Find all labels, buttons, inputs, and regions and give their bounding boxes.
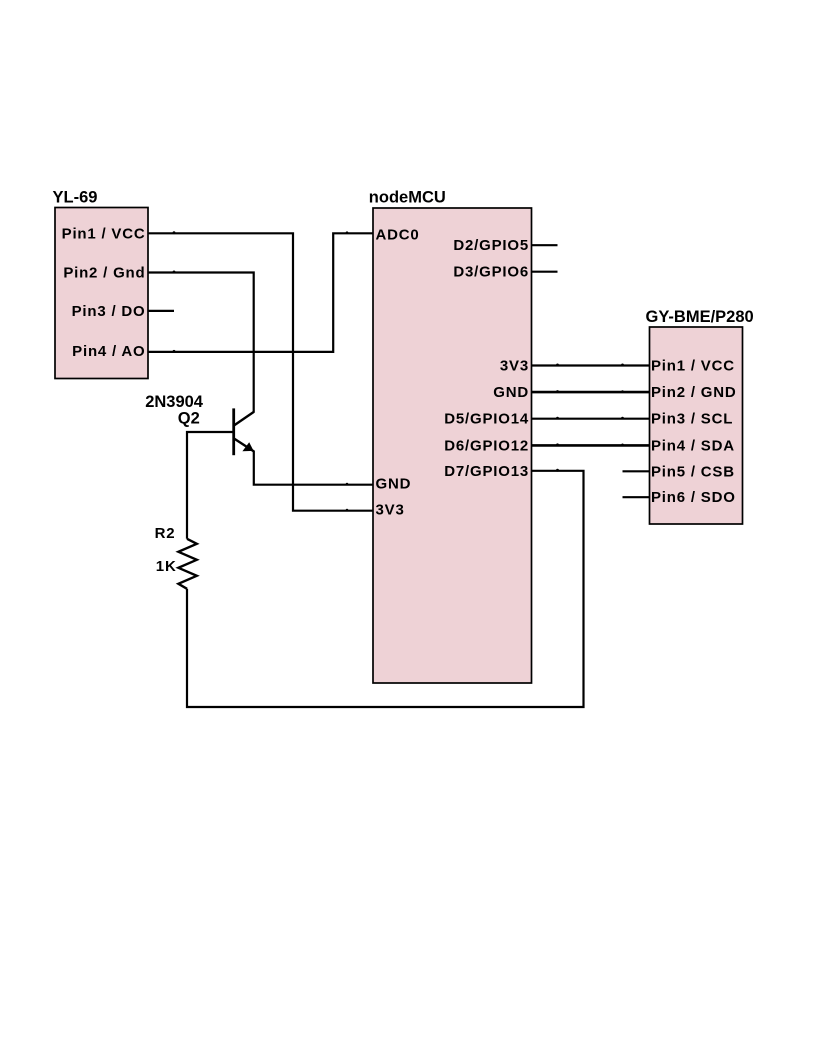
svg-text:Pin4 / SDA: Pin4 / SDA	[651, 437, 735, 454]
wire Pin2/Gnd to Q2 collector	[148, 273, 254, 413]
YL-69 sensor block	[55, 208, 148, 379]
wire stub Pin5/CSB	[623, 470, 650, 472]
wire Pin1/VCC to nodeMCU 3V3	[148, 233, 373, 510]
wire endpoint nubs	[173, 231, 624, 511]
svg-text:GND: GND	[376, 476, 412, 493]
svg-text:Q2: Q2	[178, 409, 200, 427]
wire R2 bottom to nodeMCU D7/GPIO13	[187, 471, 584, 707]
svg-text:2N3904: 2N3904	[145, 393, 204, 411]
svg-text:D7/GPIO13: D7/GPIO13	[444, 463, 529, 480]
svg-text:D6/GPIO12: D6/GPIO12	[444, 437, 529, 454]
svg-text:YL-69: YL-69	[53, 189, 98, 207]
svg-text:R2: R2	[155, 525, 176, 542]
wire stub D2/GPIO5	[532, 244, 558, 246]
svg-text:Pin6 / SDO: Pin6 / SDO	[651, 489, 736, 506]
svg-text:1K: 1K	[156, 558, 177, 575]
svg-text:Pin3 / SCL: Pin3 / SCL	[651, 411, 733, 428]
emitter arrowhead	[242, 442, 253, 451]
GY-BME/P280 block	[650, 327, 743, 524]
svg-text:nodeMCU: nodeMCU	[369, 189, 446, 207]
nodeMCU block	[373, 208, 532, 683]
svg-text:3V3: 3V3	[500, 358, 529, 375]
wire stub D3/GPIO6	[532, 271, 558, 273]
wire nodeMCU GND to BME Pin2/GND	[532, 391, 650, 394]
emitter diagonal	[234, 438, 254, 451]
svg-text:Pin1 / VCC: Pin1 / VCC	[651, 358, 735, 375]
svg-text:Pin4 / AO: Pin4 / AO	[72, 343, 145, 360]
svg-text:GND: GND	[493, 384, 529, 401]
wire nodeMCU 3V3 to BME Pin1/VCC	[532, 364, 650, 366]
svg-text:GY-BME/P280: GY-BME/P280	[646, 308, 754, 326]
wire nodeMCU D6/GPIO12 to BME Pin4/SDA	[532, 444, 650, 447]
collector diagonal	[234, 412, 254, 426]
svg-text:D2/GPIO5: D2/GPIO5	[453, 237, 529, 254]
svg-text:Pin5 / CSB: Pin5 / CSB	[651, 463, 735, 480]
wire stub Pin3/DO	[148, 310, 174, 312]
wire nodeMCU D5/GPIO14 to BME Pin3/SCL	[532, 418, 650, 420]
svg-text:Pin3 / DO: Pin3 / DO	[72, 303, 146, 320]
svg-text:D3/GPIO6: D3/GPIO6	[453, 264, 529, 281]
svg-text:ADC0: ADC0	[376, 226, 420, 243]
base bar	[232, 408, 235, 455]
wire Pin4/AO to nodeMCU ADC0	[148, 233, 373, 352]
wire stub Pin6/SDO	[623, 496, 650, 498]
svg-text:Pin1 / VCC: Pin1 / VCC	[62, 225, 146, 242]
svg-text:Pin2 / Gnd: Pin2 / Gnd	[63, 265, 145, 282]
transistor Q2 2N3904	[234, 408, 254, 455]
wire Q2 base to R2 top	[187, 432, 233, 539]
svg-text:Pin2 / GND: Pin2 / GND	[651, 384, 737, 401]
resistor R2 1K	[178, 539, 196, 589]
wire Q2 emitter to nodeMCU GND	[254, 451, 373, 485]
svg-text:3V3: 3V3	[376, 502, 405, 519]
svg-text:D5/GPIO14: D5/GPIO14	[444, 411, 529, 428]
